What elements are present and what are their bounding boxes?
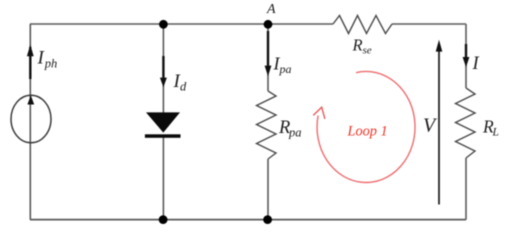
svg-text:se: se — [363, 45, 372, 57]
resistor R_L zigzag — [456, 88, 476, 158]
svg-text:I: I — [472, 54, 480, 74]
arrow I_d head — [160, 78, 167, 88]
node junction dot bottom Rpa — [263, 215, 272, 224]
wire top-left segment — [30, 23, 333, 25]
svg-text:pa: pa — [279, 62, 292, 76]
arrow I head — [463, 57, 470, 67]
svg-text:ph: ph — [44, 57, 58, 71]
svg-text:V: V — [423, 115, 438, 137]
svg-text:Loop 1: Loop 1 — [347, 123, 388, 139]
svg-text:L: L — [492, 127, 499, 139]
svg-text:pa: pa — [288, 126, 302, 140]
svg-text:d: d — [180, 80, 187, 94]
arrow I_ph shaft — [29, 47, 31, 79]
diode D1 cathode bar — [145, 134, 181, 138]
resistor R_se zigzag — [333, 16, 392, 34]
arrow I_pa shaft — [267, 31, 269, 66]
arrow V head — [436, 40, 443, 52]
wire top-right segment — [392, 23, 466, 25]
svg-text:R: R — [352, 36, 363, 55]
arrow I shaft (load current) — [465, 44, 467, 59]
node junction dot bottom diode — [159, 215, 168, 224]
wire bottom — [30, 219, 466, 221]
arrow V shaft (voltage) — [438, 51, 440, 205]
wire diode branch lower — [162, 137, 164, 220]
wire diode branch upper — [162, 24, 164, 114]
node junction dot top diode — [159, 20, 168, 29]
wire right upper — [465, 24, 467, 88]
resistor R_pa zigzag — [257, 91, 277, 159]
arrow I_d shaft — [162, 56, 164, 79]
current source CS1 circle — [11, 95, 51, 143]
node junction dot top Rpa (node A) — [264, 20, 273, 29]
current source CS1 arrowhead — [27, 95, 34, 104]
wire Rpa branch lower — [267, 159, 269, 220]
wire left — [29, 24, 31, 220]
wire right lower — [465, 158, 467, 220]
arrow I_ph head — [27, 45, 34, 57]
loop arc (red Loop I) — [317, 71, 415, 182]
diode D1 triangle — [146, 112, 180, 132]
svg-text:A: A — [266, 2, 276, 17]
wire Rpa branch upper — [267, 24, 269, 91]
arrow I_pa head — [265, 66, 272, 77]
loop arrowhead — [313, 107, 325, 119]
